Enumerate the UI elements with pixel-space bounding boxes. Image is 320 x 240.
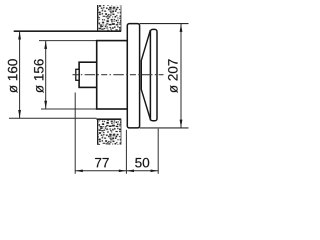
ø207 lower extension line xyxy=(140,127,189,129)
extension line 77 left (magnet back) xyxy=(74,93,76,174)
node ø156 upper extension line xyxy=(39,40,97,42)
dimension ø207 line xyxy=(180,24,183,128)
centerline xyxy=(73,74,164,76)
dimension ø156 line xyxy=(44,41,47,109)
bezel back ring xyxy=(127,24,139,128)
terminal bump xyxy=(76,69,79,80)
node ø160 lower extension line / wall inner edge xyxy=(9,117,97,119)
label ø160 xyxy=(8,59,18,93)
label ø207 xyxy=(168,59,178,93)
label 77 xyxy=(95,158,109,167)
front ring / grille face xyxy=(150,29,157,120)
ø207 upper extension line xyxy=(140,23,189,25)
wall upper (stipple section) xyxy=(97,5,121,31)
wall lower (stipple section) xyxy=(97,119,121,145)
label 50 xyxy=(135,158,149,168)
magnet xyxy=(79,62,97,87)
dimension line 77 / 50 xyxy=(75,170,158,173)
speaker body (can) xyxy=(97,41,128,109)
label ø156 xyxy=(34,59,44,93)
extension line 50 right (front face) xyxy=(157,129,159,174)
dimension ø160 line xyxy=(18,31,21,118)
extension line 77/50 shared (bezel back) xyxy=(125,130,127,174)
node ø160 upper extension line / wall inner edge xyxy=(14,30,122,32)
node ø156 lower extension line xyxy=(41,108,97,110)
cone xyxy=(141,30,150,121)
